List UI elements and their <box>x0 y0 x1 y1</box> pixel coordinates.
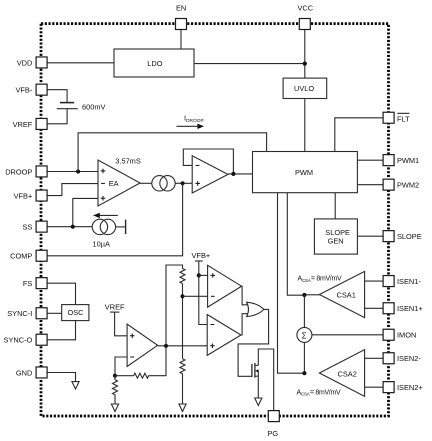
svg-text:10µA: 10µA <box>93 239 110 248</box>
wire OR output to MOSFET gate <box>238 309 269 376</box>
pin PG <box>268 411 279 422</box>
pin PWM2 <box>383 179 394 190</box>
svg-text:DROOP: DROOP <box>5 167 32 176</box>
pin + of comparator1 <box>211 273 216 278</box>
pin ISEN2+ <box>383 382 394 393</box>
svg-text:ISEN1+: ISEN1+ <box>397 304 423 313</box>
svg-text:3.57mS: 3.57mS <box>115 157 141 166</box>
pin DROOP <box>36 166 47 177</box>
svg-text:LDO: LDO <box>147 59 162 68</box>
svg-text:ISEN2-: ISEN2- <box>397 354 421 363</box>
pin PWM1 <box>383 155 394 166</box>
svg-text:IMON: IMON <box>397 331 416 340</box>
pin + of VREF op-amp <box>130 334 135 339</box>
svg-text:ISEN2+: ISEN2+ <box>397 383 423 392</box>
svg-text:FLT: FLT <box>397 114 410 123</box>
pin + of EA <box>101 169 106 174</box>
node VCC-LDO junction <box>303 62 307 66</box>
svg-text:PWM: PWM <box>295 168 313 177</box>
svg-text:FS: FS <box>23 279 33 288</box>
wire ISEN2- input <box>365 357 384 359</box>
svg-text:EN: EN <box>176 4 186 13</box>
wire bridge to divider <box>166 265 183 346</box>
wire VFB- to battery <box>48 90 68 103</box>
wire comparator1 to OR <box>242 286 248 305</box>
wire source to ground <box>257 376 259 398</box>
svg-text:VDD: VDD <box>17 58 33 67</box>
wire SS to current source <box>48 226 93 228</box>
pin + of EA lower <box>101 196 106 201</box>
wire DROOP to EA + input <box>48 171 99 173</box>
wire SS branch to EA + input <box>73 198 98 226</box>
amplifier CSA1 <box>319 271 364 317</box>
svg-text:CSA1: CSA1 <box>337 290 356 299</box>
node feedback junction <box>113 374 117 378</box>
pin - of VREF op-amp <box>130 356 134 358</box>
wire EN to LDO <box>180 30 182 49</box>
svg-text:VCC: VCC <box>298 4 314 13</box>
node VFB+ to comp1 <box>197 273 201 277</box>
wire ISEN1+ input <box>365 307 384 309</box>
pin - of comparator1 <box>211 295 215 297</box>
pin EN <box>176 19 187 30</box>
amplifier CSA2 <box>319 350 364 397</box>
svg-text:ISEN1-: ISEN1- <box>397 277 421 286</box>
svg-text:VFB+: VFB+ <box>14 191 33 200</box>
pin SS <box>36 221 47 232</box>
svg-text:Σ: Σ <box>302 331 307 340</box>
wire VDD to LDO <box>48 62 115 64</box>
svg-text:GND: GND <box>16 368 32 377</box>
block PWM <box>253 152 358 193</box>
pin - of EA <box>101 182 105 184</box>
ground MOSFET source <box>255 398 262 406</box>
pin ISEN2- <box>383 353 394 364</box>
pin FS <box>36 278 47 289</box>
wire PWM to slope gen <box>334 193 336 219</box>
pin - of buffer <box>196 164 200 166</box>
block LDO <box>114 49 194 77</box>
node SS junction <box>71 225 75 229</box>
pin SYNC-O <box>36 334 47 345</box>
wire divider middle <box>182 284 184 359</box>
wire VREF stub <box>110 312 127 336</box>
wire mirror to buffer <box>175 182 192 184</box>
pin - of comparator2 <box>211 324 215 326</box>
op-amp buffer <box>192 156 228 193</box>
wire IDROOP to PWM <box>78 133 267 172</box>
gate OR <box>247 302 264 316</box>
svg-text:IDROOP: IDROOP <box>184 114 204 125</box>
ground GND pin <box>72 382 79 389</box>
wire CSA1 output <box>304 294 319 296</box>
transistor Q1 <box>252 363 259 378</box>
op-amp VREF buffer <box>127 324 158 366</box>
svg-text:OSC: OSC <box>68 308 85 317</box>
wire GND to ground <box>48 373 76 382</box>
wire EA to current mirror <box>140 182 152 184</box>
terminal bar <box>125 220 127 235</box>
svg-text:CSA2: CSA2 <box>338 370 357 379</box>
wire VREF op-amp inverting feedback <box>115 357 127 376</box>
resistor feedback horizontal <box>134 373 150 378</box>
resistor divider lower <box>180 359 185 404</box>
node divider tap <box>180 294 184 298</box>
wire LDO output to VCC rail <box>194 63 305 65</box>
wire PWM to CSA1 node <box>287 193 304 296</box>
resistor divider upper <box>180 269 185 284</box>
wire drain to PG <box>258 349 273 410</box>
pin + of buffer <box>195 181 200 186</box>
wire SYNC-O to OSC <box>48 321 76 340</box>
svg-text:ACSA= 8mV/mV: ACSA= 8mV/mV <box>298 276 342 283</box>
wire buffer feedback <box>183 149 233 174</box>
pin VFB+ <box>36 190 47 201</box>
current source 10uA <box>92 219 115 234</box>
wire PWM to CSA2 node <box>278 193 305 374</box>
wire current source to terminal <box>116 226 126 228</box>
wire VREF op-amp output <box>158 345 208 347</box>
svg-text:SYNC-O: SYNC-O <box>4 336 33 345</box>
comparator1 <box>208 265 242 307</box>
pin VFB- <box>36 84 47 95</box>
wire buffer output to PWM <box>228 173 253 175</box>
wire UVLO to PWM <box>304 99 306 152</box>
IC boundary dashed border <box>41 24 389 416</box>
wire slope gen to SLOPE pin <box>357 235 384 237</box>
svg-text:SS: SS <box>22 223 32 232</box>
svg-text:ACSA= 8mV/mV: ACSA= 8mV/mV <box>297 389 341 396</box>
ground under divider <box>179 404 186 412</box>
wire feedback resistor to output node <box>150 346 166 376</box>
battery 600mV <box>57 103 78 109</box>
wire PWM to PWM1 <box>357 159 384 161</box>
arrow IDROOP direction <box>177 124 205 129</box>
ground under resistor <box>111 404 118 412</box>
node CSA1 output <box>302 293 306 297</box>
node CSA2 output <box>302 371 306 375</box>
wire tap to comparator1 <box>183 295 208 297</box>
pin IMON <box>383 329 394 340</box>
svg-text:VFB-: VFB- <box>15 86 32 95</box>
pin FLT <box>383 112 394 123</box>
pin SYNC-I <box>36 308 47 319</box>
wire FLT to PWM <box>335 118 384 152</box>
wire VCC to UVLO <box>304 30 306 79</box>
pin ISEN1+ <box>383 303 394 314</box>
op-amp EA <box>98 160 140 206</box>
svg-text:SYNC-I: SYNC-I <box>7 309 32 318</box>
resistor to ground lower <box>113 376 118 404</box>
wire mirror node to COMP <box>48 183 183 256</box>
comparator2 <box>207 315 241 356</box>
block UVLO <box>283 78 327 98</box>
label FLT with overline <box>397 113 410 123</box>
svg-text:PWM1: PWM1 <box>397 156 419 165</box>
current mirror <box>152 176 175 191</box>
summer sigma <box>297 327 312 342</box>
svg-text:EA: EA <box>109 179 119 188</box>
node DROOP branch <box>76 169 80 173</box>
pin VREF <box>36 118 47 129</box>
svg-text:UVLO: UVLO <box>294 84 314 93</box>
svg-text:VFB+: VFB+ <box>192 251 211 260</box>
wire to feedback resistor <box>115 375 134 377</box>
wire VFB+ to comparator1 + <box>199 274 208 276</box>
pin VCC <box>299 19 310 30</box>
wire VFB+ to EA - input <box>48 184 99 196</box>
svg-text:PWM2: PWM2 <box>397 181 419 190</box>
block OSC <box>62 305 89 321</box>
wire VFB+ stub <box>195 261 207 325</box>
pin + of comparator2 <box>210 344 215 349</box>
node buffer output <box>231 172 235 176</box>
pin ISEN1- <box>383 276 394 287</box>
wire SYNC-I to OSC <box>48 312 62 314</box>
node op-amp output junction <box>164 344 168 348</box>
pin COMP <box>36 250 47 261</box>
wire node to sigma <box>303 295 305 373</box>
svg-text:600mV: 600mV <box>82 103 105 112</box>
node mirror output <box>181 181 185 185</box>
wire battery to VREF <box>48 109 68 124</box>
wire PWM to PWM2 <box>357 184 384 186</box>
svg-text:COMP: COMP <box>10 252 32 261</box>
wire comparator2 to OR <box>241 314 248 335</box>
pin GND <box>36 367 47 378</box>
wire ISEN1- input <box>365 280 384 282</box>
wire ISEN2+ input <box>365 386 384 388</box>
block SLOPE GEN <box>314 219 357 254</box>
pin VDD <box>36 57 47 68</box>
wire sigma to IMON <box>312 334 384 336</box>
svg-text:PG: PG <box>268 429 279 438</box>
arrow current direction <box>93 213 118 218</box>
pin SLOPE <box>383 231 394 242</box>
svg-text:VREF: VREF <box>13 120 33 129</box>
svg-text:VREF: VREF <box>105 303 125 312</box>
wire FS to OSC <box>48 283 76 304</box>
svg-text:SLOPE: SLOPE <box>397 232 422 241</box>
